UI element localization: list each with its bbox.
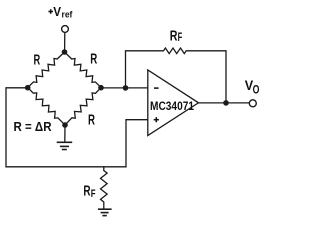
node bridge bottom junction [62,122,68,128]
resistor R = dR bottom-left [28,88,65,126]
resistor R top-right [65,52,102,88]
svg-text:O: O [253,83,260,97]
label plus sign of +Vref [48,9,53,14]
label op-amp plus input [154,117,159,122]
svg-text:ref: ref [62,9,74,20]
ground RF bottom [98,209,112,215]
svg-text:F: F [91,188,96,200]
node bridge right junction [98,85,104,91]
ground bridge [57,142,72,149]
wire bridge bottom to ground [64,125,66,142]
svg-text:V: V [53,4,61,19]
node Vo terminal [249,100,256,107]
wire op-amp output [199,102,250,104]
resistor R bottom-right [65,88,101,126]
svg-text:MC34071: MC34071 [150,99,194,113]
node bridge left junction [25,85,31,91]
resistor RF bottom [101,167,108,209]
node output junction [223,100,229,106]
resistor R top-left [28,52,65,88]
svg-text:F: F [178,32,183,44]
svg-text:R = ΔR: R = ΔR [14,119,53,134]
node bridge top junction [62,49,68,55]
op-amp U1 MC34071 [148,70,199,136]
wire right node to op-amp inverting input [101,87,148,89]
node Vref terminal [62,26,69,33]
svg-text:R: R [34,53,41,69]
wire Vref to bridge top [64,33,66,50]
svg-text:R: R [90,52,97,68]
node feedback junction [123,85,129,91]
label op-amp minus input [154,87,159,89]
wire left node to left rail [6,88,148,167]
svg-text:R: R [88,113,95,129]
wire feedback loop with resistor RF [126,48,227,103]
